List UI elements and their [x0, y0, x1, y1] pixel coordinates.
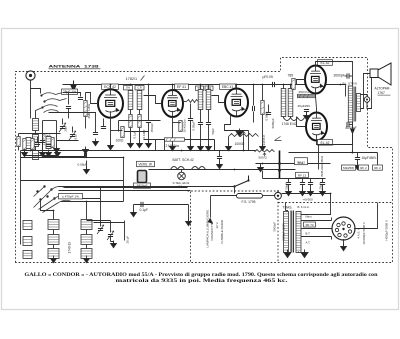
antenna socket	[26, 71, 35, 80]
choke label RF 73 psu	[304, 222, 316, 227]
trimmer a wire	[100, 202, 102, 227]
aerial coil tertiary	[33, 151, 39, 160]
wire cap	[95, 125, 97, 133]
rotary switch fan	[34, 185, 72, 212]
IF3 to bus a	[283, 85, 285, 89]
wire IF1 cap gnd	[148, 123, 150, 144]
svg-text:RF 73: RF 73	[306, 223, 314, 227]
IF2 down b	[208, 110, 210, 123]
padder trimmer	[59, 123, 66, 132]
switch wire drop	[100, 188, 102, 202]
V2 cathode to resistor	[173, 122, 181, 124]
ground transformer a	[284, 250, 291, 258]
IF2 secondary winding	[206, 90, 211, 110]
resistor screen	[138, 115, 141, 128]
svg-text:25 μF: 25 μF	[126, 236, 130, 244]
fuse F.S.1795	[237, 192, 282, 199]
svg-text:25μF: 25μF	[319, 183, 323, 190]
tube label EL 42 (lower)	[318, 140, 333, 146]
wire screen cap	[190, 104, 192, 119]
wire pot gnd	[228, 137, 230, 147]
junction node 2	[130, 84, 132, 86]
IF2 down a	[200, 110, 202, 123]
resistor screen feed WW	[187, 100, 199, 103]
wire elca	[288, 179, 290, 183]
inner shield partition (dashed)	[188, 191, 279, 263]
svg-text:C.R: C.R	[137, 86, 142, 90]
switch extra arc	[44, 110, 59, 113]
pot to line	[243, 137, 245, 151]
wire OPT to speaker b	[361, 74, 371, 109]
svg-text:500 Ω: 500 Ω	[259, 155, 268, 159]
volume wiper arrow	[263, 153, 266, 156]
tuner coil col2 c	[81, 249, 92, 259]
wire 6000pF	[268, 105, 270, 113]
front vertical extra lower	[68, 109, 70, 119]
audio box grid line	[297, 79, 306, 81]
switch wire right upper	[65, 187, 188, 189]
mixer tube V1 ECH42	[98, 88, 123, 118]
det output wire	[214, 140, 216, 151]
svg-text:1740-19: 1740-19	[68, 242, 72, 254]
junction node 13	[243, 150, 245, 152]
resistor 100 ohm cathode	[121, 127, 124, 138]
svg-text:250 R.L.: 250 R.L.	[299, 90, 311, 94]
capacitor 3000pF plate	[347, 73, 349, 78]
switch to col1	[41, 199, 54, 211]
cluster drop	[18, 134, 20, 151]
capacitor cathode bypass	[93, 133, 98, 135]
svg-text:785: 785	[288, 74, 294, 78]
volume resistor 500 ohm zigzag	[255, 150, 275, 153]
wr4	[322, 185, 324, 192]
trimmer b feed	[87, 220, 111, 222]
svg-text:GALLO « CONDOR » - AUTORADIO m: GALLO « CONDOR » - AUTORADIO mod 55/A - …	[25, 273, 379, 278]
V3 plate to bus	[236, 85, 238, 89]
wire det out gnd	[219, 159, 221, 165]
cathode bias wires	[298, 94, 316, 97]
svg-text:16μF450V.: 16μF450V.	[362, 156, 378, 160]
wire OPT to speaker a	[361, 95, 368, 97]
wire det out cap	[219, 151, 221, 157]
wire trimmer gnd2	[111, 242, 114, 244]
svg-text:2 MΩ/½w: 2 MΩ/½w	[166, 144, 180, 148]
lamp drop	[181, 170, 183, 173]
wire det cap2	[253, 112, 255, 123]
svg-text:1767: 1767	[378, 91, 386, 95]
svg-text:12 V.: 12 V.	[215, 222, 219, 229]
ground 0.1uF	[131, 210, 137, 217]
wire 8000pF join	[349, 124, 353, 126]
IF1 label tick	[141, 76, 145, 81]
capacitor front small	[66, 107, 71, 109]
osc coil extra	[26, 138, 31, 149]
coil col2 link b	[86, 245, 88, 249]
IF2 secondary to bus	[208, 85, 210, 90]
IF3 down b	[290, 117, 292, 119]
V4 plate wire	[316, 62, 353, 86]
capacitor cluster extra	[35, 143, 40, 145]
svg-text:6000pF: 6000pF	[271, 118, 275, 128]
junction node 4	[172, 84, 174, 86]
junction node 9	[283, 84, 285, 86]
mid bus second	[21, 157, 124, 159]
capacitor IF1 bypass	[146, 121, 151, 123]
junction node 21	[86, 201, 88, 203]
B+ supply bus	[63, 84, 346, 86]
junction node 8	[262, 84, 264, 86]
svg-text:4 A.S. h: 4 A.S. h	[357, 228, 361, 239]
svg-text:FUSIBILE RADIO: FUSIBILE RADIO	[220, 219, 224, 243]
tuning trimmer capacitor	[78, 98, 83, 100]
capacitor electrolytic c	[308, 183, 313, 185]
svg-text:B.T.: B.T.	[306, 232, 311, 236]
svg-text:VERS. W.: VERS. W.	[138, 163, 152, 167]
svg-text:50μF: 50μF	[285, 183, 289, 190]
transformer bottom leads	[286, 252, 288, 254]
vibrator socket	[332, 217, 355, 240]
ground cluster extra	[40, 150, 46, 157]
IF3 to bus b	[290, 85, 292, 89]
chassis frame (dashed)	[16, 58, 393, 263]
ground IF1 a	[128, 141, 134, 148]
switch contact	[247, 179, 249, 181]
capacitor electrolytic d	[320, 183, 325, 185]
svg-text:EBC 41: EBC 41	[222, 85, 234, 89]
svg-text:8:30: 8:30	[74, 134, 78, 140]
ground coil col2	[84, 256, 90, 263]
grid bus drop	[118, 121, 120, 132]
tube label ECH 42	[102, 84, 119, 89]
cluster wire a	[37, 137, 39, 143]
tuner coil col1 c	[48, 249, 59, 259]
cap row feed drop	[262, 171, 264, 179]
socket riser b	[331, 237, 333, 240]
supply switch	[235, 176, 249, 187]
antenna lead wire	[31, 80, 41, 93]
ground aerial	[54, 146, 60, 153]
wire IF2 gnd a	[200, 125, 202, 147]
capacitor IF2 b	[206, 123, 211, 125]
ground coil col1	[51, 256, 57, 263]
choke label RF 13 second	[296, 172, 309, 177]
svg-text:B.L.STV/S: B.L.STV/S	[343, 82, 357, 86]
wire trimmer feed	[72, 127, 74, 133]
capacitor 16uF 450V	[355, 158, 360, 160]
det line drop	[214, 140, 216, 151]
capacitor 25uF cathode	[304, 110, 309, 112]
junction node 6	[236, 84, 238, 86]
output tube V4 EL42 upper	[305, 64, 326, 93]
tuner trimmer a	[97, 225, 104, 234]
coil col2 link a	[86, 230, 88, 235]
svg-text:1782/1: 1782/1	[126, 77, 138, 81]
svg-text:ALTOPAR-: ALTOPAR-	[375, 87, 391, 91]
psu wire rf13 out	[308, 163, 331, 165]
coil col1 link a	[53, 230, 55, 235]
svg-text:5000pF 1500V.: 5000pF 1500V.	[282, 222, 286, 240]
IF1 winding to resistor 2	[139, 110, 141, 115]
wire coil to bus	[30, 89, 32, 119]
junction node 18	[277, 190, 279, 192]
ground left cluster	[22, 150, 28, 157]
wire IF1 gnd a	[130, 128, 132, 144]
ground det out	[217, 162, 223, 169]
socket to B+ wire	[354, 203, 378, 229]
IF2 trimmer micro box b	[205, 86, 213, 90]
switch node	[40, 94, 42, 96]
junction node 15	[234, 169, 236, 171]
resistor grid leak output	[292, 79, 295, 90]
ground front end	[93, 139, 99, 146]
front end drop	[42, 121, 44, 157]
IF3 secondary winding	[288, 89, 293, 117]
V1 cathode network	[111, 130, 123, 132]
wr3	[310, 185, 312, 192]
V2 cathode drop	[172, 117, 174, 131]
filament choke arcs b	[192, 167, 206, 170]
block cross wire	[94, 222, 125, 224]
svg-text:TRAS.: TRAS.	[283, 206, 293, 210]
IF1 primary winding	[128, 91, 133, 110]
trimmer b wire	[110, 221, 112, 233]
heater bus	[21, 150, 256, 152]
wire 16uF gnd	[357, 160, 359, 166]
detector tube V3 EBC41	[225, 87, 248, 116]
svg-text:RF 2: RF 2	[360, 166, 367, 170]
capacitor front extra	[46, 145, 51, 147]
tuner block left wire	[20, 151, 22, 245]
suppressor capacitor body	[138, 171, 147, 183]
front end link	[43, 120, 57, 122]
junction node 3	[148, 84, 150, 86]
ground socket	[341, 244, 347, 251]
aerial coil primary	[33, 119, 39, 131]
B+ rail to PSU	[353, 152, 378, 154]
wire det cap	[253, 85, 255, 106]
svg-text:0.05μF: 0.05μF	[192, 121, 196, 131]
svg-text:± 470pF 1%: ± 470pF 1%	[62, 195, 79, 199]
volume potentiometer zigzag	[229, 134, 259, 137]
battery wire left	[211, 195, 237, 197]
padding coil col0 c	[23, 251, 32, 259]
ground psu top	[258, 165, 264, 172]
svg-text:matricola da 9335 in poi. Medi: matricola da 9335 in poi. Media frequenz…	[116, 279, 288, 284]
junction node 10	[290, 84, 292, 86]
speaker label underline	[378, 94, 391, 96]
ground IF2 b	[206, 144, 212, 151]
front vertical extra	[68, 93, 70, 105]
wire front-end mesh 2	[43, 149, 86, 157]
wire V2 cath gnd	[172, 131, 174, 147]
wire tr gnd b	[298, 252, 300, 253]
ground V2 cathode	[170, 144, 176, 151]
mid riser	[123, 158, 125, 202]
wire 16uF	[357, 153, 359, 158]
junction node 17	[330, 193, 332, 195]
ground cluster	[55, 150, 61, 157]
V2 grid wire	[144, 96, 163, 104]
junction node 16	[262, 163, 264, 165]
ground elcd	[320, 189, 326, 196]
junction node 5	[200, 84, 202, 86]
fuse to connector wire	[263, 195, 275, 197]
wire det gnd	[262, 115, 264, 147]
padding coil col0 a	[23, 221, 32, 230]
output transformer core	[354, 87, 356, 122]
junction node 11	[340, 84, 342, 86]
svg-text:1500pF: 1500pF	[150, 123, 154, 133]
V1 cathode drop	[110, 118, 112, 135]
V3 cathode step	[225, 115, 249, 131]
resistor label RF 2 a	[359, 165, 369, 170]
osc coil small	[46, 137, 51, 149]
resistor AVC 2M 1/4W	[165, 138, 185, 141]
wave-change switch contacts	[42, 93, 67, 108]
svg-text:RF 2: RF 2	[374, 166, 381, 170]
wire coil link	[35, 147, 37, 151]
mains transformer core	[291, 211, 293, 253]
ground IF2 a	[198, 144, 204, 151]
heater bus lower	[149, 169, 235, 171]
ground IF1 cap	[146, 141, 152, 148]
cluster bus	[19, 133, 61, 135]
battery wire down	[330, 194, 332, 211]
battery wire right	[282, 193, 331, 195]
wire elcb	[302, 179, 304, 183]
svg-text:filam.: filam.	[306, 215, 313, 219]
tuner coil col2 b	[81, 235, 92, 245]
IF2 primary to bus	[200, 85, 202, 90]
resistor cluster extra2	[51, 138, 54, 148]
wire trimmer feed	[62, 119, 64, 125]
V1 grid wire	[86, 93, 99, 104]
cluster wires	[25, 151, 58, 156]
svg-text:10 KΩ/1w: 10 KΩ/1w	[183, 119, 187, 133]
transformer secondary winding	[296, 212, 301, 253]
coil col1 link b	[53, 245, 55, 249]
return line 2	[59, 190, 191, 192]
junction node 12	[30, 150, 32, 152]
tuner trimmer b	[107, 231, 114, 240]
IF3 down	[283, 117, 285, 119]
B+ rail down right	[377, 153, 379, 168]
tube label EL 42 (upper)	[318, 60, 333, 66]
filament link	[31, 150, 141, 152]
switch node	[41, 106, 43, 108]
resistor label RF 2 b	[373, 165, 383, 170]
junction node 14	[181, 150, 183, 152]
wire speaker connector up	[367, 78, 372, 109]
wire coil top to switch	[36, 108, 43, 119]
svg-text:+6V300: +6V300	[303, 198, 313, 202]
V5 grid wire	[297, 117, 307, 127]
coil col1 wire	[53, 211, 55, 220]
wire elcd	[322, 179, 324, 183]
coil col2 wire	[86, 202, 88, 220]
speaker line connector	[364, 97, 370, 103]
wire screen cap gnd	[190, 121, 192, 147]
IF2 trimmer micro box a	[196, 86, 204, 90]
capacitor label 5800pF	[134, 183, 151, 188]
resistor 2M 1/4W	[84, 101, 87, 117]
loudspeaker	[370, 63, 391, 85]
audio box divider wire	[345, 85, 347, 97]
tuner coil col1 b	[48, 235, 59, 245]
cathode bias wires 2	[316, 96, 317, 113]
grid bus segment	[119, 120, 161, 122]
AF output line	[134, 204, 189, 206]
wire IF1 gnd b	[139, 128, 141, 144]
ground 16uF	[355, 163, 361, 170]
ground IF1 b	[137, 141, 143, 148]
ground resistor 2M	[83, 147, 89, 154]
capacitor IF2 a	[198, 123, 203, 125]
psu top wire 163	[256, 163, 295, 165]
resistor V2 cathode	[179, 121, 182, 132]
capacitor 0.05uF heater	[85, 153, 87, 158]
svg-text:3000pF: 3000pF	[334, 74, 345, 78]
battery lead arrow	[208, 218, 213, 225]
padding coil col0 b	[23, 237, 32, 246]
B+ drop arrowhead	[350, 129, 355, 135]
tuner block top wire	[21, 180, 124, 182]
ground elcc	[308, 189, 314, 196]
ground transformer b	[301, 250, 308, 258]
capacitor label 470pF 1%	[59, 194, 83, 199]
wire to ground	[56, 141, 58, 149]
B+ branch to driver	[289, 152, 353, 154]
junction node 7	[253, 84, 255, 86]
output transformer primary	[348, 86, 352, 122]
wire elcc	[310, 179, 312, 183]
wire grid line	[85, 93, 87, 101]
power-unit shield box (dashed)	[278, 191, 393, 263]
capacitor coupling to output	[273, 82, 275, 87]
ground V1 cathode	[108, 143, 114, 150]
IF amplifier tube V2 EF41	[162, 89, 183, 117]
OPT to B+ rail	[352, 122, 354, 153]
svg-text:BATT. SCH.42: BATT. SCH.42	[173, 158, 194, 162]
V5 plate wire	[317, 122, 353, 145]
ground screen cap	[188, 144, 194, 151]
wire IF1 cap	[148, 85, 150, 121]
wire psu top gnd	[260, 164, 262, 168]
output transformer secondary	[357, 94, 361, 112]
svg-text:H500μF 5008 V.: H500μF 5008 V.	[385, 219, 389, 240]
capacitor 25pF 1%	[62, 89, 78, 94]
choke label RF 13 10W	[295, 158, 308, 165]
capacitor coupling det	[253, 106, 255, 111]
junction node 1	[110, 84, 112, 86]
IF1 secondary winding	[137, 91, 142, 110]
svg-text:B. 6 mi A.: B. 6 mi A.	[298, 205, 310, 209]
tuner coil col2 a	[81, 220, 92, 230]
wire left cluster	[24, 150, 26, 153]
wire V1 cath gnd	[110, 135, 112, 146]
switch out to caps	[83, 198, 101, 200]
IF1 secondary top to bus	[139, 85, 141, 91]
svg-text:0.05μF: 0.05μF	[78, 163, 88, 167]
filament choke arcs a	[171, 167, 185, 170]
ground V3 cathode bold	[236, 129, 243, 137]
resistor det load	[261, 101, 264, 115]
svg-text:10W: 10W	[298, 162, 304, 165]
wire 0.1uF gnd	[133, 205, 135, 213]
mid link low	[61, 201, 124, 203]
junction dot b	[278, 169, 281, 172]
svg-text:ANTENNA 1738: ANTENNA 1738	[49, 65, 99, 69]
